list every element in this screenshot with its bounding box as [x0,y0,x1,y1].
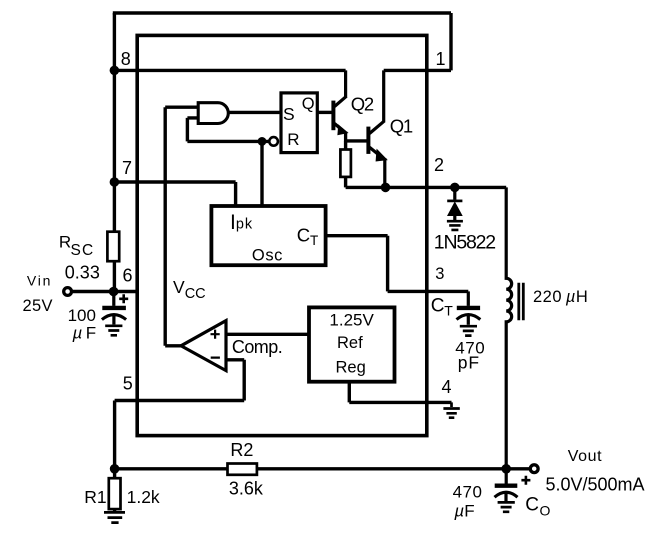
transistor Q2 [333,70,346,141]
junction dot Vin node [109,287,119,297]
svg-text:SC: SC [71,242,95,259]
resistor RSC [107,232,119,262]
resistor R1 [109,478,121,509]
svg-text:C: C [525,495,539,516]
svg-text:R2: R2 [230,440,253,460]
junction dot diode node [450,183,460,193]
svg-text:7: 7 [122,158,132,178]
wire AND output to latch S input [228,111,279,114]
svg-text:Q1: Q1 [390,115,413,136]
svg-text:1: 1 [436,49,446,69]
resistor internal (Q1 base-emitter) [340,150,351,177]
wire Osc CT output to pin 3 [326,236,469,292]
svg-text:6: 6 [123,265,133,285]
IC box MC34063 outline [137,35,427,435]
wire Q2 emitter node to Q1 base [346,139,367,142]
svg-text:4: 4 [442,377,452,397]
ground below R1 [104,512,125,522]
svg-text:5: 5 [123,373,133,393]
svg-text:Q: Q [302,95,315,113]
svg-text:CC: CC [185,286,206,302]
junction dot pin 7 [110,177,120,187]
wire ref-reg to pin 4 ground [349,382,451,403]
Vin terminal [64,288,72,296]
ground below 100uF [105,326,122,336]
wire bottom rail left (pin5 node to R2) [115,467,228,470]
svg-text:Ref: Ref [337,334,363,352]
svg-text:Reg: Reg [336,359,366,377]
svg-text:Vin: Vin [27,272,52,288]
resistor R2 [228,464,257,475]
svg-text:S: S [283,104,295,124]
svg-text:25V: 25V [23,297,53,315]
latch SR box [281,93,317,153]
svg-text:C: C [297,224,310,245]
svg-text:R1: R1 [84,487,106,507]
svg-text:C: C [431,295,445,316]
wire R1 stems [113,469,116,512]
wire top horizontal to pin 1 drop [113,13,451,70]
capacitor 100uF plus sign [119,294,128,303]
svg-text:µ F: µ F [72,323,97,342]
wire bottom rail right (R2 to Vout) [257,467,531,470]
svg-text:µF: µF [453,501,474,520]
svg-text:Vout: Vout [568,448,602,465]
wire R-node down to Osc top [260,141,263,206]
wire pin 8 to Q2 collector [114,69,345,72]
wire pin 1 horizontal into Q1 collector [384,69,451,72]
svg-text:T: T [310,233,318,248]
wire pin 2 horizontal (switch node) [346,186,507,189]
latch R inverter bubble [269,137,278,146]
junction dot output node [501,464,511,474]
junction dot feedback node [110,464,120,474]
transistor Q1 [368,70,384,187]
svg-text:O: O [540,502,551,518]
inductor L1 [506,187,511,468]
comparator op-amp [181,321,226,371]
svg-text:3.6k: 3.6k [229,478,264,498]
wire AND top input from comparator output [165,107,198,346]
svg-text:Osc: Osc [252,246,283,264]
reference regulator box [309,307,395,381]
wire internal resistor stems [344,141,347,188]
svg-text:1.25V: 1.25V [329,311,374,330]
svg-text:8: 8 [121,49,131,69]
plus sign CO [521,476,530,485]
ground pin 4 [443,402,459,417]
wire pin 6 Vin input [71,290,137,293]
capacitor 100uF [102,296,126,325]
svg-text:pF: pF [458,352,480,372]
svg-text:100: 100 [68,306,96,325]
junction dot Q1 emitter node [381,183,391,193]
svg-text:Comp.: Comp. [232,337,282,357]
wire latch Q output to Q2 base [317,111,331,114]
AND gate U1 [198,103,228,124]
diode 1N5822 [447,189,462,220]
junction dot R latch wire [258,137,267,146]
svg-text:220 µH: 220 µH [533,288,588,306]
capacitor CT external [457,291,481,324]
svg-text:R: R [59,232,71,251]
inductor core bars [519,283,524,321]
svg-text:1.2k: 1.2k [127,487,160,507]
junction dot pin 8 [110,66,120,76]
wire comparator - input to pin 5 feedback [115,360,245,469]
svg-text:2: 2 [434,155,444,175]
wire left rail top segment [113,13,116,232]
svg-text:5.0V/500mA: 5.0V/500mA [546,475,645,495]
oscillator box [211,206,325,265]
svg-text:470: 470 [453,483,483,502]
svg-text:1N5822: 1N5822 [434,231,495,253]
svg-text:V: V [173,277,185,297]
svg-text:T: T [444,303,453,319]
svg-text:0.33: 0.33 [65,262,100,282]
svg-text:R: R [287,130,299,149]
wire pin 7 to Osc Ipk [114,182,235,206]
svg-text:3: 3 [435,265,444,283]
wire comparator + input to reference [226,333,309,336]
wire AND bottom input loop to R latch input [187,118,269,141]
capacitor CO output [495,469,518,501]
Vout terminal [530,465,538,473]
svg-text:Q2: Q2 [351,93,374,114]
wire left rail lower segment (RSC to Vin node) [113,262,116,292]
